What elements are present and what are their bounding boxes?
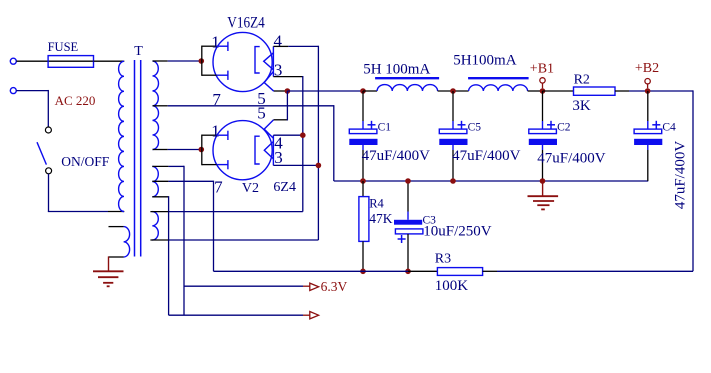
resistor R3: [437, 268, 482, 276]
arrow heater 2: [310, 312, 319, 319]
capacitor C5: [452, 91, 454, 121]
wire winding B bottom: [150, 239, 168, 241]
ground (transformer): [93, 270, 124, 272]
V2 plate lower (pin 7): [217, 164, 228, 166]
V1 heater chevron: [264, 53, 274, 70]
node C1 junction: [360, 88, 366, 94]
svg-text:5H 100mA: 5H 100mA: [363, 62, 430, 78]
resistor R4: [362, 181, 364, 197]
wire shield winding bottom to ground: [109, 256, 124, 258]
switch S1 ON/OFF: [45, 127, 51, 133]
V2 heater bar: [272, 135, 274, 165]
node B2: [645, 88, 651, 94]
V2 plate upper (pin 1): [217, 134, 228, 136]
svg-text:ON/OFF: ON/OFF: [61, 154, 110, 169]
fuse F1 body: [48, 56, 93, 68]
terminal +B2: [645, 79, 650, 84]
V2 cathode chevron to pin 5: [264, 120, 273, 139]
wire HV top to V1 plates: [153, 60, 168, 62]
svg-text:R3: R3: [435, 252, 451, 267]
choke L2 5H100mA: [469, 85, 528, 91]
resistor R2: [574, 87, 616, 95]
ground (main filter): [542, 181, 544, 196]
transformer winding B: [152, 212, 158, 240]
svg-text:C2: C2: [557, 122, 571, 134]
transformer HV secondary winding: [153, 61, 159, 106]
V2 heater chevron: [264, 142, 273, 159]
svg-text:4: 4: [274, 32, 283, 51]
V1 heater bar: [272, 46, 274, 76]
wire winding A bottom tap: [152, 196, 168, 198]
V2 cathode bracket: [255, 136, 260, 164]
capacitor C1: [362, 91, 364, 121]
svg-text:3: 3: [274, 148, 283, 167]
wire V2 cathode up to B+: [274, 119, 288, 121]
wire winding B top: [150, 211, 168, 213]
tube V2 envelope: [213, 121, 272, 180]
node V1 plate junction: [199, 58, 205, 64]
svg-text:FUSE: FUSE: [48, 40, 79, 54]
wire V2 pin4: [273, 134, 302, 136]
V1 plate lower (pin 7): [217, 74, 228, 76]
wire V2 pin3: [273, 164, 318, 166]
ground rail: [334, 180, 648, 182]
wire heater output 2: [169, 314, 303, 316]
wire L2 to B1: [528, 90, 543, 92]
svg-text:R2: R2: [574, 72, 590, 87]
svg-text:7: 7: [212, 90, 221, 109]
V1 cathode chevron to pin 5: [264, 72, 274, 92]
node cathodes join: [285, 88, 291, 94]
wire R3 line: [214, 270, 409, 272]
transformer shield winding (left lower): [124, 227, 130, 257]
svg-text:6Z4: 6Z4: [273, 180, 296, 195]
V1 cathode bracket: [255, 47, 260, 73]
wire B1 to R2: [543, 90, 574, 92]
stub wire shield winding top: [109, 226, 124, 228]
V1 plate upper (pin 1): [217, 45, 228, 47]
node V2 pin3 heater junction: [316, 163, 322, 169]
tube V1 envelope: [213, 32, 272, 91]
svg-text:100K: 100K: [435, 278, 469, 294]
transformer 6.3V winding A: [152, 166, 158, 196]
svg-text:10uF/250V: 10uF/250V: [423, 224, 492, 240]
wire 6.3V output: [184, 285, 303, 287]
svg-text:5H100mA: 5H100mA: [453, 53, 517, 69]
wire HV center tap rail: [153, 105, 168, 107]
wire HV bottom to V2 plates: [153, 149, 168, 151]
transformer T core: [134, 60, 136, 257]
svg-text:5: 5: [257, 103, 266, 122]
V1 plate tie wires: [202, 45, 217, 47]
svg-text:47uF/400V: 47uF/400V: [673, 141, 689, 210]
svg-text:C4: C4: [662, 122, 676, 134]
svg-text:V2: V2: [242, 181, 259, 196]
terminal +B1: [540, 78, 545, 83]
svg-text:7: 7: [214, 177, 223, 196]
svg-text:V16Z4: V16Z4: [227, 15, 264, 32]
terminal J1 (AC line input, upper): [10, 58, 16, 64]
wire R2 to B2: [615, 90, 629, 92]
wire switch to primary bottom: [48, 174, 50, 212]
capacitor C2: [542, 91, 544, 121]
svg-text:47uF/400V: 47uF/400V: [452, 148, 521, 164]
svg-text:1: 1: [211, 121, 220, 140]
wire winding A mid tap: [152, 180, 168, 182]
svg-text:47K: 47K: [369, 211, 393, 226]
svg-text:3K: 3K: [572, 98, 591, 114]
capacitor C3: [407, 181, 409, 212]
wire L1 to L2: [438, 90, 469, 92]
wire J2 to switch: [16, 90, 48, 92]
svg-text:C5: C5: [468, 122, 482, 134]
svg-text:T: T: [134, 44, 143, 59]
svg-text:47uF/400V: 47uF/400V: [362, 148, 431, 164]
svg-text:R4: R4: [369, 196, 384, 210]
fuse F1 wire through: [48, 60, 93, 62]
transformer T primary winding: [119, 61, 124, 211]
node V2 plate junction: [199, 147, 205, 153]
svg-text:47uF/400V: 47uF/400V: [537, 150, 606, 166]
V2 plate tie wires: [202, 134, 217, 136]
wire V1 pin3: [273, 76, 302, 78]
node B1: [540, 88, 546, 94]
wire fuse to transformer primary top: [94, 60, 125, 62]
arrow 6.3V: [310, 283, 319, 290]
terminal J2 (AC line input, lower): [10, 88, 16, 94]
svg-text:6.3V: 6.3V: [321, 279, 348, 294]
capacitor C4: [647, 91, 649, 121]
wire right border down: [692, 90, 694, 271]
svg-text:+B2: +B2: [635, 61, 659, 76]
wire J1 to fuse: [16, 60, 48, 62]
wire V1 pin4: [273, 45, 288, 47]
node V2 pin4 heater junction: [300, 132, 306, 138]
choke L1 5H 100mA: [377, 85, 438, 91]
svg-text:1: 1: [211, 33, 220, 52]
wire winding A top tap: [152, 165, 168, 167]
wire V1 cathode to B+: [274, 90, 288, 92]
svg-text:C1: C1: [378, 122, 392, 134]
node C5 junction: [450, 88, 456, 94]
svg-text:+B1: +B1: [530, 61, 554, 76]
svg-text:AC 220: AC 220: [55, 93, 96, 108]
